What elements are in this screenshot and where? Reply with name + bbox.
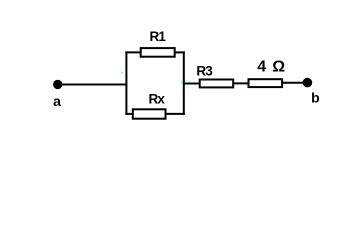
resistor R1 bbox=[141, 48, 175, 57]
wire: right vertical bus of parallel branch bbox=[183, 51, 185, 115]
wire: 4-ohm resistor to node b bbox=[281, 82, 305, 84]
wire: left vertical bus of parallel branch bbox=[125, 51, 127, 115]
resistor Rx bbox=[133, 109, 166, 118]
svg-text:a: a bbox=[53, 93, 61, 109]
wire: R3 to 4-ohm resistor bbox=[233, 82, 250, 84]
anchor artifact mark (cyan) right bbox=[181, 80, 183, 83]
wire: top branch left (to R1) bbox=[125, 51, 142, 53]
node b bbox=[303, 78, 313, 88]
anchor artifact mark (cyan) left bbox=[121, 72, 123, 74]
wire: parallel network to R3 bbox=[183, 83, 201, 85]
wire: bottom branch left (to Rx) bbox=[125, 113, 134, 115]
resistor R3 bbox=[200, 80, 234, 88]
resistor 4 ohm bbox=[249, 79, 283, 87]
svg-text:Rx: Rx bbox=[148, 92, 165, 107]
svg-text:b: b bbox=[311, 90, 320, 106]
wire: bottom branch right (from Rx) bbox=[164, 113, 185, 115]
node a bbox=[53, 80, 62, 89]
wire from node a to parallel network bbox=[60, 84, 127, 86]
svg-text:R1: R1 bbox=[149, 29, 166, 44]
svg-text:R3: R3 bbox=[196, 64, 213, 79]
wire: top branch right (from R1) bbox=[173, 51, 185, 53]
svg-text:4 Ω: 4 Ω bbox=[257, 59, 286, 76]
